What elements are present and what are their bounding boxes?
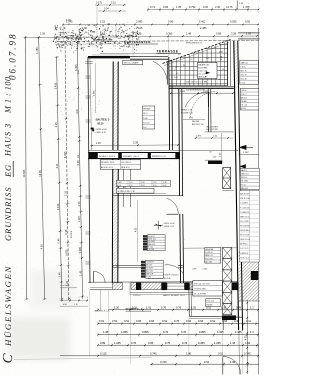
svg-text:0.865: 0.865 bbox=[199, 330, 206, 334]
svg-text:KG 2.635: KG 2.635 bbox=[146, 268, 153, 270]
svg-text:0.76: 0.76 bbox=[165, 341, 171, 345]
interior wall H1 (living/children, windows) bbox=[88, 150, 238, 158]
svg-text:1.045: 1.045 bbox=[214, 341, 221, 345]
porch walls bottom-right bbox=[189, 283, 243, 331]
hall lines right bbox=[183, 132, 259, 248]
terrace hatched area bbox=[170, 41, 231, 87]
svg-text:2.48: 2.48 bbox=[82, 27, 87, 30]
stair X-boxes column bbox=[223, 248, 232, 315]
svg-text:0.5: 0.5 bbox=[214, 47, 216, 49]
svg-text:0.175: 0.175 bbox=[226, 5, 233, 9]
svg-text:0.70: 0.70 bbox=[181, 330, 187, 334]
room2 small dims bbox=[192, 121, 233, 160]
svg-text:3.135: 3.135 bbox=[56, 203, 60, 210]
svg-text:1.76 / 2: 1.76 / 2 bbox=[241, 94, 247, 96]
right text column bbox=[239, 145, 260, 262]
bottom-right tables bbox=[193, 281, 223, 307]
svg-text:0.63: 0.63 bbox=[186, 319, 192, 323]
terrace top diagonal boundary bbox=[163, 40, 231, 66]
svg-text:KG 2.635: KG 2.635 bbox=[205, 258, 212, 260]
svg-text:0.9: 0.9 bbox=[176, 73, 178, 75]
svg-text:1.475: 1.475 bbox=[243, 5, 250, 9]
svg-text:T 30.5: T 30.5 bbox=[240, 66, 245, 68]
svg-text:1.50: 1.50 bbox=[213, 157, 217, 159]
svg-text:0.625: 0.625 bbox=[64, 249, 68, 256]
bottom dimension chains bbox=[60, 290, 259, 374]
svg-text:KG 1.01: KG 1.01 bbox=[143, 122, 149, 124]
svg-text:3.15: 3.15 bbox=[100, 32, 106, 36]
svg-text:0.99: 0.99 bbox=[219, 52, 223, 54]
svg-text:EG: EG bbox=[3, 164, 13, 178]
label hall WD bbox=[206, 126, 218, 131]
table under H1 bbox=[100, 160, 141, 169]
svg-text:1.35: 1.35 bbox=[221, 305, 227, 309]
wall terrace-left / room1 right bbox=[169, 57, 173, 150]
svg-text:ABGRENZUNG Z. B. M.: ABGRENZUNG Z. B. M. bbox=[93, 38, 113, 41]
svg-text:1.045: 1.045 bbox=[114, 341, 121, 345]
svg-text:1.5: 1.5 bbox=[218, 79, 220, 81]
svg-text:KG II: KG II bbox=[117, 185, 122, 187]
svg-text:1.01: 1.01 bbox=[129, 182, 133, 184]
svg-text:5.01 / 1.76: 5.01 / 1.76 bbox=[240, 248, 248, 250]
gate swing bottom-right bbox=[223, 357, 241, 375]
svg-text:OK 2.38: OK 2.38 bbox=[148, 249, 154, 251]
door hall big swing (dashed) bbox=[191, 92, 217, 118]
chimney X-box hall bbox=[223, 168, 231, 189]
svg-text:0.76: 0.76 bbox=[163, 330, 169, 334]
svg-text:MAUER 24er: MAUER 24er bbox=[198, 63, 210, 66]
svg-text:2.15: 2.15 bbox=[63, 190, 67, 196]
svg-text:BRT 30/17 5/8: BRT 30/17 5/8 bbox=[192, 124, 204, 126]
svg-text:0.885/2.01: 0.885/2.01 bbox=[240, 253, 248, 255]
svg-text:0.96: 0.96 bbox=[168, 20, 174, 24]
svg-text:ABSTELLR. 1,5: ABSTELLR. 1,5 bbox=[95, 309, 111, 312]
svg-text:4.00: 4.00 bbox=[66, 19, 71, 22]
room1 narrow table bbox=[143, 106, 155, 129]
door V2 mid (leaf+arc) bbox=[167, 198, 179, 214]
svg-text:0.76: 0.76 bbox=[182, 341, 188, 345]
svg-text:OK +0.76: OK +0.76 bbox=[198, 73, 206, 75]
svg-text:1.30: 1.30 bbox=[163, 182, 167, 184]
svg-text:OKFF +0.00: OKFF +0.00 bbox=[164, 223, 176, 225]
svg-text:BRH 0.51: BRH 0.51 bbox=[148, 244, 155, 246]
svg-text:KG 2.635 II: KG 2.635 II bbox=[121, 162, 131, 164]
hall line 0.99 bbox=[183, 117, 205, 119]
tables row under H2-top bbox=[116, 180, 170, 193]
svg-text:M 1 : 100: M 1 : 100 bbox=[3, 76, 12, 114]
svg-text:5.435: 5.435 bbox=[53, 82, 57, 89]
svg-text:BRH 0.51 m: BRH 0.51 m bbox=[240, 216, 250, 218]
svg-text:1.48: 1.48 bbox=[186, 32, 192, 36]
svg-text:T 0.885/2.0: T 0.885/2.0 bbox=[240, 212, 249, 214]
svg-text:0.74: 0.74 bbox=[150, 5, 156, 9]
svg-text:2.985: 2.985 bbox=[136, 20, 143, 24]
svg-text:KS-STEIN: KS-STEIN bbox=[198, 67, 207, 69]
svg-text:16.01 m²: 16.01 m² bbox=[241, 176, 248, 179]
svg-text:2.40: 2.40 bbox=[215, 5, 221, 9]
terrace small dims bbox=[174, 52, 223, 84]
svg-text:1.01: 1.01 bbox=[146, 305, 152, 309]
svg-text:0.89: 0.89 bbox=[100, 341, 106, 345]
svg-text:BRH 0.88: BRH 0.88 bbox=[146, 274, 153, 276]
svg-text:BRH 0.00: BRH 0.00 bbox=[198, 76, 206, 78]
wall corridor pair mid bbox=[123, 155, 131, 207]
svg-text:OKRF ±0.00: OKRF ±0.00 bbox=[95, 129, 107, 131]
svg-text:BRH 0.51: BRH 0.51 bbox=[205, 255, 212, 257]
svg-text:0.51: 0.51 bbox=[218, 351, 224, 355]
fold shadow bottom-left bbox=[8, 317, 70, 359]
svg-text:0.99: 0.99 bbox=[193, 268, 197, 270]
svg-text:0.99: 0.99 bbox=[163, 5, 169, 9]
terrace grid numbers bbox=[176, 47, 224, 81]
small left-of-wall notes bbox=[71, 70, 80, 238]
svg-text:3.745: 3.745 bbox=[150, 351, 157, 355]
svg-text:KG 2.635: KG 2.635 bbox=[148, 241, 155, 243]
svg-text:0.25: 0.25 bbox=[54, 122, 58, 128]
svg-text:S 1.07: S 1.07 bbox=[240, 82, 245, 84]
svg-text:F 1.01: F 1.01 bbox=[241, 184, 246, 186]
svg-text:D 24 BET.: D 24 BET. bbox=[240, 203, 248, 205]
wall interior V2 bbox=[179, 88, 184, 283]
svg-text:0.76: 0.76 bbox=[236, 305, 242, 309]
svg-text:2.135: 2.135 bbox=[203, 268, 208, 270]
svg-text:2.185: 2.185 bbox=[135, 32, 142, 36]
svg-text:GAR 5.01: GAR 5.01 bbox=[240, 61, 247, 64]
svg-text:66.10: 66.10 bbox=[97, 122, 104, 125]
svg-text:ISO 80 WLG: ISO 80 WLG bbox=[240, 230, 250, 232]
wall top exterior (with window band) bbox=[85, 54, 168, 65]
svg-text:BAUTEIL 3: BAUTEIL 3 bbox=[96, 118, 110, 122]
svg-text:4.435: 4.435 bbox=[63, 151, 67, 158]
svg-text:HAUS 2 WOHNZI. 28.07: HAUS 2 WOHNZI. 28.07 bbox=[163, 294, 186, 297]
svg-text:1.70: 1.70 bbox=[74, 304, 78, 306]
svg-text:ALU/ISO 1.01: ALU/ISO 1.01 bbox=[101, 166, 113, 169]
svg-text:DIELE 5.0: DIELE 5.0 bbox=[241, 174, 249, 176]
svg-text:0.335: 0.335 bbox=[198, 341, 205, 345]
svg-text:KOCHN 1.30: KOCHN 1.30 bbox=[181, 112, 194, 114]
svg-text:WOHNZI: WOHNZI bbox=[143, 109, 150, 111]
svg-text:0.865: 0.865 bbox=[142, 330, 149, 334]
svg-text:0.76: 0.76 bbox=[131, 341, 137, 345]
wall interior V1 upper (stair core) bbox=[113, 62, 118, 151]
svg-text:3.740: 3.740 bbox=[160, 360, 167, 364]
svg-text:BRH 0.51: BRH 0.51 bbox=[121, 167, 129, 169]
svg-text:1.20: 1.20 bbox=[114, 305, 120, 309]
svg-text:1.01/1.26: 1.01/1.26 bbox=[205, 252, 212, 254]
right table C bbox=[240, 168, 259, 190]
svg-text:0.51: 0.51 bbox=[129, 185, 133, 187]
svg-text:3.38: 3.38 bbox=[133, 141, 139, 145]
svg-text:WD 11.5 GK: WD 11.5 GK bbox=[240, 198, 250, 200]
right wall lower extension bbox=[189, 319, 243, 375]
svg-text:0.51: 0.51 bbox=[162, 319, 168, 323]
svg-text:WD 11.5: WD 11.5 bbox=[241, 97, 247, 99]
svg-text:KINDERZI. 14.25: KINDERZI. 14.25 bbox=[152, 156, 166, 158]
svg-text:0.76: 0.76 bbox=[174, 319, 180, 323]
svg-text:2.26: 2.26 bbox=[96, 142, 101, 145]
svg-text:4.50: 4.50 bbox=[245, 335, 247, 340]
elevation cross room2 bbox=[154, 221, 176, 230]
svg-text:0.56: 0.56 bbox=[245, 20, 251, 24]
svg-text:0.04: 0.04 bbox=[104, 8, 109, 11]
svg-text:GARTENANTEIL: GARTENANTEIL bbox=[124, 40, 151, 44]
svg-text:0.51: 0.51 bbox=[204, 360, 210, 364]
svg-text:1.785: 1.785 bbox=[35, 47, 39, 54]
svg-text:3.15: 3.15 bbox=[111, 1, 116, 4]
svg-text:WOHNZI. 26.51: WOHNZI. 26.51 bbox=[101, 162, 114, 164]
svg-text:17.5/27.6 GEL.: 17.5/27.6 GEL. bbox=[194, 289, 207, 291]
svg-text:0.63: 0.63 bbox=[141, 185, 145, 187]
svg-text:0.63: 0.63 bbox=[149, 319, 155, 323]
svg-text:SCHLAFZI. 1 16.01: SCHLAFZI. 1 16.01 bbox=[123, 155, 139, 158]
svg-text:0.51: 0.51 bbox=[112, 319, 118, 323]
door lower-mid arc bbox=[165, 265, 184, 274]
svg-text:FENSTER: FENSTER bbox=[205, 249, 214, 251]
svg-text:1.48: 1.48 bbox=[103, 330, 109, 334]
svg-text:1.52: 1.52 bbox=[100, 20, 106, 24]
svg-text:1.06: 1.06 bbox=[246, 32, 252, 36]
label ESSZI bbox=[181, 109, 194, 114]
neighbour diagonal hatch area bbox=[239, 252, 260, 301]
svg-text:TERRASSE: TERRASSE bbox=[157, 50, 179, 54]
svg-text:2.485: 2.485 bbox=[200, 26, 207, 30]
svg-text:1.76 5.01 / 11 STG: 1.76 5.01 / 11 STG bbox=[194, 283, 210, 285]
svg-text:2.15: 2.15 bbox=[77, 201, 81, 207]
svg-text:0.8: 0.8 bbox=[178, 54, 180, 56]
svg-text:POD 1.07: POD 1.07 bbox=[206, 301, 214, 303]
svg-text:HAUS 3: HAUS 3 bbox=[3, 123, 12, 157]
svg-text:0.51: 0.51 bbox=[153, 185, 157, 187]
interior wall H2 bbox=[113, 190, 184, 195]
svg-text:4.11: 4.11 bbox=[55, 163, 59, 168]
svg-text:1.18: 1.18 bbox=[230, 341, 236, 345]
svg-text:1.115: 1.115 bbox=[77, 216, 81, 223]
room2 lower table bbox=[146, 260, 164, 278]
svg-text:4.02 / 1.01 / 2.01 / 1.51 RIM: 4.02 / 1.01 / 2.01 / 1.51 RIM bbox=[186, 82, 208, 84]
svg-text:KG 2.635: KG 2.635 bbox=[241, 181, 248, 183]
svg-text:4.435: 4.435 bbox=[94, 90, 96, 96]
porch table E bbox=[205, 248, 221, 264]
svg-text:13.05: 13.05 bbox=[38, 170, 42, 177]
terrace flag marker bbox=[205, 71, 210, 77]
svg-text:F 1.01/1.26: F 1.01/1.26 bbox=[240, 207, 249, 209]
label BAUTEIL 3 bbox=[91, 118, 110, 134]
svg-text:2.402: 2.402 bbox=[199, 20, 206, 24]
svg-text:0.90: 0.90 bbox=[63, 304, 67, 306]
label SCHNITT bbox=[126, 308, 152, 311]
svg-text:3.745: 3.745 bbox=[244, 351, 251, 355]
handwritten title column (rotated) bbox=[0, 33, 17, 365]
svg-text:KS 17.5 DF: KS 17.5 DF bbox=[240, 235, 249, 237]
svg-text:WD KNS: WD KNS bbox=[192, 121, 200, 123]
svg-text:NB 1.76: NB 1.76 bbox=[240, 70, 246, 72]
svg-text:BRH 0.51: BRH 0.51 bbox=[241, 188, 248, 190]
svg-text:1.01: 1.01 bbox=[206, 58, 210, 60]
svg-text:HAUS 2: HAUS 2 bbox=[241, 169, 247, 172]
svg-text:OK RFB +2.385 / 1.30: OK RFB +2.385 / 1.30 bbox=[117, 191, 135, 193]
svg-text:4.435: 4.435 bbox=[74, 64, 78, 71]
svg-text:24: 24 bbox=[183, 65, 185, 67]
svg-text:ALU ISO: ALU ISO bbox=[205, 260, 212, 263]
door terrace-hall arc bbox=[185, 92, 208, 107]
svg-text:4.05: 4.05 bbox=[136, 227, 138, 232]
svg-text:0.63: 0.63 bbox=[198, 319, 204, 323]
svg-text:0.935: 0.935 bbox=[230, 20, 237, 24]
right wall hatch top bbox=[234, 42, 239, 88]
svg-text:OK 0.76: OK 0.76 bbox=[240, 74, 246, 76]
svg-text:OKFF -0.15: OKFF -0.15 bbox=[95, 132, 106, 134]
svg-text:F90 AB: F90 AB bbox=[241, 100, 247, 103]
svg-text:5.01/1.01: 5.01/1.01 bbox=[133, 295, 141, 297]
svg-text:5.01 m²: 5.01 m² bbox=[241, 89, 247, 92]
svg-text:1.182: 1.182 bbox=[243, 152, 249, 154]
svg-text:1.01: 1.01 bbox=[191, 305, 197, 309]
svg-text:OKRF -0.15: OKRF -0.15 bbox=[164, 226, 176, 228]
svg-text:AW 36.5 KS: AW 36.5 KS bbox=[240, 193, 250, 196]
bottom exterior wall band bbox=[88, 268, 239, 290]
svg-text:PRIV.GRÜN 1.57: PRIV.GRÜN 1.57 bbox=[186, 41, 203, 44]
terrace under-wall chain bbox=[170, 88, 234, 94]
svg-text:0.63: 0.63 bbox=[222, 319, 228, 323]
svg-text:1.01: 1.01 bbox=[78, 155, 80, 158]
svg-text:HÜGELSWAGEN: HÜGELSWAGEN bbox=[3, 265, 13, 347]
svg-text:1.01: 1.01 bbox=[153, 182, 157, 184]
terrace bottom wall bbox=[169, 86, 234, 88]
interior dim line room1 bbox=[90, 141, 180, 147]
svg-text:0.38: 0.38 bbox=[231, 32, 237, 36]
svg-text:DF 10 ST.WD: DF 10 ST.WD bbox=[206, 129, 218, 131]
wall right exterior (double) bbox=[234, 41, 243, 330]
svg-text:GRUNDRISS: GRUNDRISS bbox=[3, 187, 13, 241]
svg-text:1.95: 1.95 bbox=[230, 360, 236, 364]
svg-text:2.385: 2.385 bbox=[117, 182, 122, 184]
wall interior V1 lower bbox=[112, 155, 118, 283]
svg-text:F 1.01: F 1.01 bbox=[148, 247, 153, 249]
svg-text:F 0.76: F 0.76 bbox=[146, 277, 151, 279]
terrace inner label box bbox=[198, 63, 218, 79]
svg-text:OK +2.635: OK +2.635 bbox=[240, 221, 248, 223]
door room1-terrace (leaf+arc) bbox=[153, 61, 168, 84]
svg-text:20: 20 bbox=[210, 152, 212, 154]
svg-text:2.1: 2.1 bbox=[222, 69, 224, 71]
svg-text:1.2: 1.2 bbox=[190, 59, 192, 61]
svg-text:1.36: 1.36 bbox=[40, 32, 46, 36]
svg-text:06.07.98: 06.07.98 bbox=[8, 33, 18, 81]
svg-text:2.985: 2.985 bbox=[180, 91, 186, 93]
door bottom-left (leaf+arc) bbox=[94, 271, 106, 283]
svg-text:4.05: 4.05 bbox=[40, 244, 44, 250]
svg-text:0.25: 0.25 bbox=[76, 160, 80, 166]
svg-text:1.49: 1.49 bbox=[57, 272, 61, 278]
svg-text:0.58: 0.58 bbox=[216, 32, 222, 36]
svg-text:0.792: 0.792 bbox=[189, 5, 196, 9]
svg-text:B 0.99: B 0.99 bbox=[241, 108, 246, 110]
svg-text:0.51: 0.51 bbox=[124, 319, 130, 323]
svg-text:2.635: 2.635 bbox=[143, 118, 147, 120]
right top table A bbox=[240, 60, 259, 84]
svg-text:0.115: 0.115 bbox=[100, 351, 107, 355]
svg-text:0.76: 0.76 bbox=[176, 305, 182, 309]
svg-text:WOHNZI. 1 26.51 B: WOHNZI. 1 26.51 B bbox=[99, 156, 116, 158]
left vertical dimension chains bbox=[22, 37, 130, 364]
svg-text:1.35: 1.35 bbox=[176, 5, 182, 9]
svg-text:0.51: 0.51 bbox=[206, 305, 212, 309]
svg-text:0.175: 0.175 bbox=[96, 1, 103, 4]
svg-text:1.30: 1.30 bbox=[141, 182, 145, 184]
svg-text:4.37: 4.37 bbox=[75, 108, 79, 114]
property line right edge bbox=[238, 28, 260, 374]
svg-text:0.76: 0.76 bbox=[161, 305, 167, 309]
svg-text:2.01: 2.01 bbox=[174, 77, 178, 79]
svg-text:1.45: 1.45 bbox=[78, 270, 82, 276]
svg-text:0.51: 0.51 bbox=[210, 319, 216, 323]
svg-text:1.135: 1.135 bbox=[235, 330, 242, 334]
svg-text:1.1: 1.1 bbox=[250, 305, 254, 309]
svg-text:OK +2.4: OK +2.4 bbox=[241, 105, 247, 107]
svg-text:1.345: 1.345 bbox=[217, 330, 224, 334]
svg-text:0.01: 0.01 bbox=[99, 319, 105, 323]
svg-text:1.77: 1.77 bbox=[60, 32, 66, 36]
svg-text:KG 2.40: KG 2.40 bbox=[240, 78, 246, 80]
svg-text:4.05: 4.05 bbox=[148, 341, 154, 345]
svg-text:FB 15 ESTR: FB 15 ESTR bbox=[240, 225, 250, 227]
svg-text:26.51: 26.51 bbox=[143, 113, 147, 115]
svg-text:0.45: 0.45 bbox=[234, 319, 240, 323]
svg-text:1.1: 1.1 bbox=[250, 330, 254, 334]
svg-text:14.565: 14.565 bbox=[22, 169, 26, 177]
svg-text:WD 3,5 2 DRAHT: WD 3,5 2 DRAHT bbox=[124, 62, 140, 65]
svg-text:OK +0.76 TRH: OK +0.76 TRH bbox=[194, 294, 207, 296]
TERRASSE label bbox=[157, 50, 182, 54]
terrace steps below living room bbox=[130, 283, 216, 298]
svg-text:0.36: 0.36 bbox=[64, 229, 68, 235]
svg-text:5.385: 5.385 bbox=[78, 246, 82, 253]
svg-text:0.63: 0.63 bbox=[136, 319, 142, 323]
svg-text:0.63: 0.63 bbox=[163, 185, 167, 187]
svg-text:ESSZI. 2.50: ESSZI. 2.50 bbox=[181, 109, 193, 111]
svg-text:0.51: 0.51 bbox=[132, 305, 138, 309]
svg-text:0.365: 0.365 bbox=[166, 32, 173, 36]
right table B bbox=[240, 88, 259, 110]
wall stub V3 (hall) bbox=[208, 88, 211, 132]
svg-text:1.90: 1.90 bbox=[186, 351, 192, 355]
svg-text:BRH 0.51: BRH 0.51 bbox=[71, 231, 73, 238]
svg-text:1.065: 1.065 bbox=[121, 330, 128, 334]
wall left exterior bbox=[86, 57, 92, 283]
top dimension chains bbox=[25, 1, 260, 58]
label ABSTELLR bbox=[60, 304, 110, 312]
svg-text:0.49: 0.49 bbox=[57, 238, 61, 244]
svg-text:POS 7 11.5: POS 7 11.5 bbox=[240, 257, 249, 259]
interior wall H3b lower bbox=[112, 265, 183, 267]
svg-text:1.10: 1.10 bbox=[245, 341, 251, 345]
svg-text:GIPS 1.5 cm: GIPS 1.5 cm bbox=[240, 239, 250, 241]
room interior dim lines bbox=[94, 63, 138, 262]
svg-text:0.11: 0.11 bbox=[246, 319, 251, 323]
svg-text:AB F90 1x: AB F90 1x bbox=[240, 243, 248, 246]
svg-text:0.51: 0.51 bbox=[143, 127, 146, 129]
room2 table bbox=[148, 235, 166, 251]
svg-text:2.105: 2.105 bbox=[136, 26, 143, 30]
svg-text:0.30: 0.30 bbox=[203, 5, 209, 9]
chimney base line bbox=[223, 190, 234, 192]
svg-text:SCHL 16.1: SCHL 16.1 bbox=[148, 239, 156, 241]
